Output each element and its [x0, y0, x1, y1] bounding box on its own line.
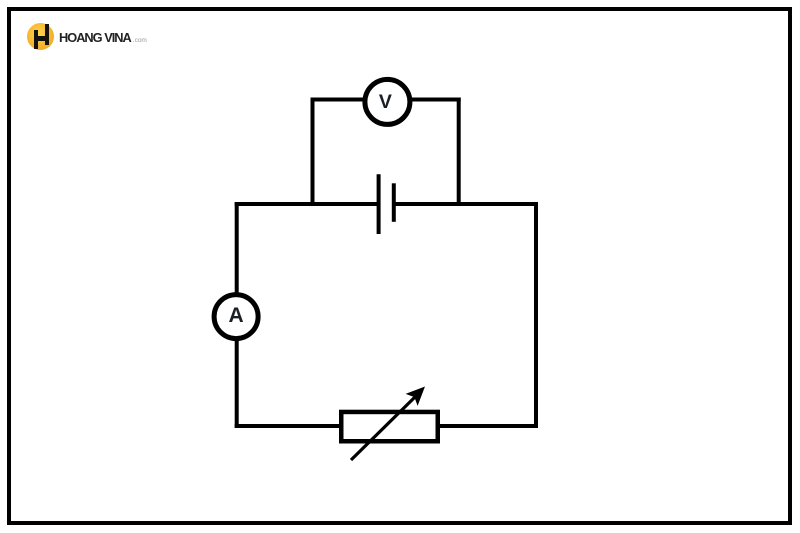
wire: voltmeter branch, right vertical — [457, 98, 461, 205]
battery cell (long positive plate) — [377, 174, 381, 234]
wire: voltmeter branch, left vertical — [311, 98, 315, 205]
battery cell (short negative plate) — [392, 183, 396, 222]
wire: voltmeter branch, top horizontal (through voltmeter) — [311, 98, 461, 102]
ammeter A — [214, 295, 258, 339]
svg-text:A: A — [229, 304, 244, 327]
rheostat arrow shaft — [351, 397, 415, 460]
wire: bottom side (through rheostat) — [235, 424, 538, 428]
wire: top side, battery right lead — [394, 202, 539, 206]
wire: left vertical (through ammeter) — [235, 202, 239, 428]
wire: right vertical — [534, 202, 538, 428]
rheostat arrow head — [406, 387, 425, 406]
wire: top side, battery left lead — [235, 202, 379, 206]
rheostat (variable resistor) body — [341, 387, 438, 461]
voltmeter V — [365, 79, 410, 124]
svg-text:V: V — [379, 91, 392, 113]
